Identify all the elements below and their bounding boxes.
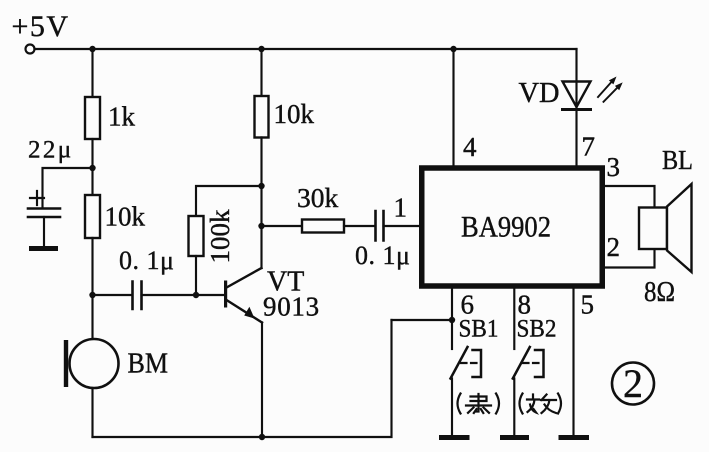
wire junction to C1 (93, 294, 133, 296)
wire R4 to C2 (344, 225, 375, 227)
wire pin 4 (452, 49, 454, 166)
svg-text:BL: BL (662, 144, 693, 175)
junction top rail / pin 4 (450, 46, 456, 52)
svg-text:2: 2 (607, 232, 621, 262)
svg-text:VD: VD (519, 78, 560, 109)
wire junction to R4 (262, 225, 303, 227)
svg-text:3: 3 (607, 152, 621, 182)
svg-text:7: 7 (582, 132, 596, 162)
wire pin 7 upper (575, 49, 577, 109)
junction C1 input (89, 292, 95, 298)
svg-text:100k: 100k (205, 209, 235, 264)
wire C2 to IC pin 1 (384, 225, 420, 227)
switch SB2 contact (513, 347, 530, 379)
svg-text:BM: BM (128, 349, 169, 380)
svg-text:9013: 9013 (263, 292, 320, 322)
switch SB1 button (473, 350, 482, 377)
figure number 2 circle (612, 363, 654, 405)
LED VD cathode bar (563, 108, 591, 111)
capacitor C 22μ polarity plus (30, 191, 44, 205)
svg-text:5: 5 (581, 290, 595, 320)
IC U1 BA9902 (422, 168, 603, 286)
resistor R4 30k (302, 220, 344, 233)
wire emitter to bottom rail (261, 323, 263, 438)
svg-text:22μ: 22μ (28, 137, 74, 164)
label （放） play (520, 394, 562, 414)
transistor VT collector (227, 268, 262, 288)
svg-text:8Ω: 8Ω (644, 276, 675, 308)
wire R3 to collector (260, 138, 262, 269)
svg-text:10k: 10k (105, 202, 146, 232)
wire pin 3 (605, 186, 655, 208)
capacitor C2 0.1μ (376, 211, 384, 241)
switch SB1 dashed link (461, 362, 480, 364)
wire pin 6 (451, 289, 453, 350)
wire C1 to base (142, 294, 225, 296)
svg-text:30k: 30k (297, 182, 339, 213)
svg-text:0. 1μ: 0. 1μ (119, 246, 174, 275)
ground (SB1) (439, 435, 470, 440)
wire SB1 to ground (451, 379, 453, 437)
svg-text:10k: 10k (274, 99, 315, 129)
transistor VT emitter arrow (244, 307, 254, 319)
resistor R 100k (189, 216, 204, 256)
svg-text:1k: 1k (108, 102, 136, 132)
resistor R2 10k (85, 195, 100, 238)
microphone BM front bar (64, 340, 68, 387)
junction top rail / R1 (89, 46, 95, 52)
wire top rail (35, 48, 577, 50)
wire pin 8 (513, 289, 515, 350)
junction 30k tap (258, 223, 264, 229)
resistor R1 1k (85, 97, 100, 139)
LED VD arrow 2 (604, 88, 618, 102)
svg-text:0. 1μ: 0. 1μ (355, 241, 410, 270)
svg-text:4: 4 (463, 132, 477, 162)
terminal +5V (26, 45, 35, 54)
svg-text:SB2: SB2 (517, 316, 557, 343)
wire bottom rail (93, 320, 392, 437)
switch SB2 button (535, 350, 544, 377)
junction R 100k bottom (193, 292, 199, 298)
wire to capacitor 22u (43, 168, 93, 207)
junction pin 6 wire (449, 317, 455, 323)
LED VD triangle (563, 82, 591, 108)
wire pin 5 (572, 289, 574, 437)
speaker BL driver (639, 208, 667, 250)
svg-text:2: 2 (623, 361, 643, 406)
svg-text:+5V: +5V (12, 10, 70, 43)
junction 22u tap (89, 165, 95, 171)
LED VD arrow 1 (598, 83, 611, 98)
wire pin 7 lower (575, 110, 577, 166)
svg-text:BA9902: BA9902 (461, 211, 551, 244)
capacitor C 22μ (28, 209, 60, 218)
svg-text:1: 1 (394, 193, 408, 223)
switch SB1 contact (451, 347, 468, 379)
wire rail to R1 (91, 49, 93, 97)
wire collector junction to R 100k (196, 186, 262, 216)
wire rail to R3 (260, 49, 262, 96)
switch SB2 dashed link (523, 362, 542, 364)
speaker BL horn (667, 184, 692, 272)
resistor R3 10k (255, 96, 269, 138)
wire pin 2 (605, 249, 655, 268)
wire 22u to ground (43, 217, 45, 246)
wire SB2 to ground (513, 379, 515, 437)
junction emitter / bottom rail (259, 434, 265, 440)
wire BM to bottom rail (91, 388, 93, 437)
ground (pin 5) (559, 435, 590, 440)
ground (22μ) (29, 246, 58, 251)
transistor VT emitter (227, 300, 263, 323)
microphone BM body (70, 339, 119, 388)
wire bottom rail to pin 6 (392, 319, 453, 321)
junction collector top (258, 183, 264, 189)
wire R 100k to base wire (195, 256, 197, 295)
wire R2 to BM (91, 238, 93, 340)
ground (SB2) (500, 435, 529, 440)
capacitor C1 0.1μ (133, 282, 142, 310)
transistor VT base bar (224, 281, 227, 308)
label （录） record (458, 394, 500, 414)
svg-text:SB1: SB1 (459, 316, 499, 343)
wire R1 to R2 (91, 139, 93, 195)
junction top rail / R3 (258, 46, 264, 52)
